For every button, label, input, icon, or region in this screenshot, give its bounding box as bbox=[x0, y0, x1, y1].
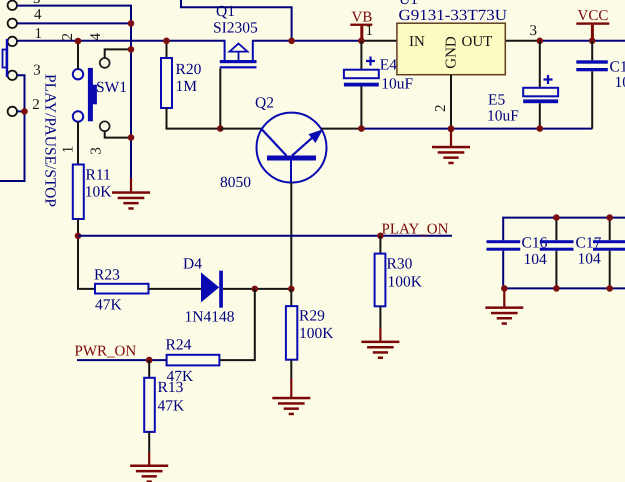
ground at R13 bbox=[130, 432, 168, 482]
wire SW1 top-right pin to bus bbox=[105, 49, 131, 58]
wire main rail right bbox=[505, 40, 540, 42]
junction U1 gnd rail bbox=[448, 125, 455, 132]
diode D4 1N4148 bbox=[201, 271, 223, 308]
svg-text:C18: C18 bbox=[610, 59, 625, 76]
junction R11 bottom bbox=[75, 233, 82, 240]
wire U1 GND pin down bbox=[450, 75, 452, 129]
wire pin2 stub bbox=[17, 110, 25, 112]
svg-text:104: 104 bbox=[524, 251, 548, 268]
svg-text:R13: R13 bbox=[158, 379, 184, 396]
wire Q2 base row bbox=[220, 128, 262, 130]
svg-text:VCC: VCC bbox=[578, 8, 609, 24]
wire C16 ladder bottom rail bbox=[503, 287, 625, 289]
capacitor C17 bbox=[540, 218, 574, 289]
junction C17 top bbox=[553, 214, 560, 221]
junction pin4 bus bbox=[128, 20, 135, 27]
jack bracket fragment at left edge bbox=[3, 39, 8, 77]
wire R11 bottom to PLAY_ON and R23 bbox=[78, 219, 95, 289]
svg-text:47K: 47K bbox=[158, 398, 186, 415]
wire SW1 bottom-right pin to bus bbox=[105, 131, 131, 137]
svg-text:PLAY/PAUSE/STOP: PLAY/PAUSE/STOP bbox=[41, 74, 58, 207]
svg-text:100K: 100K bbox=[299, 325, 334, 342]
wire Q2 emitter to ground rail bbox=[321, 128, 361, 130]
junction R13 top bbox=[146, 357, 153, 364]
regulator U1 G9131-33T73U bbox=[397, 23, 505, 74]
connector P pin 5 (top, clipped) bbox=[8, 0, 41, 10]
wire Q1 drain bypass from top edge bbox=[181, 0, 292, 41]
svg-text:1: 1 bbox=[366, 23, 374, 39]
svg-text:10uF: 10uF bbox=[381, 75, 413, 92]
svg-text:4: 4 bbox=[34, 7, 42, 23]
svg-text:Q2: Q2 bbox=[255, 95, 274, 112]
ground at regulator bbox=[432, 129, 470, 164]
connector P pin 3 bbox=[8, 63, 41, 81]
transistor Q2 (NPN 8050) bbox=[257, 113, 327, 183]
svg-text:SW1: SW1 bbox=[96, 79, 127, 96]
junction SW1 bottom-right pin bbox=[128, 134, 135, 141]
svg-text:PWR_ON: PWR_ON bbox=[75, 344, 137, 360]
svg-text:1M: 1M bbox=[176, 78, 198, 95]
power port VB bbox=[350, 10, 372, 41]
connector P pin 2 bbox=[8, 97, 40, 116]
svg-text:E4: E4 bbox=[380, 57, 397, 74]
svg-text:3: 3 bbox=[88, 147, 104, 155]
svg-text:2: 2 bbox=[433, 105, 449, 113]
wire pin5 to vertical bus bbox=[17, 6, 131, 178]
wire net PWR_ON bbox=[77, 359, 167, 361]
svg-text:R24: R24 bbox=[166, 337, 192, 354]
junction C19 top bbox=[606, 214, 613, 221]
wire main rail left bbox=[17, 40, 226, 42]
wire pin4 bbox=[17, 22, 131, 24]
junction C19 bottom bbox=[606, 285, 613, 292]
wire pin3 down-left loop bbox=[0, 75, 25, 181]
connector P pin 4 bbox=[8, 7, 42, 28]
junction gate node bbox=[217, 125, 224, 132]
junction drain rail bbox=[288, 38, 295, 45]
resistor R20 bbox=[161, 41, 172, 108]
svg-text:104: 104 bbox=[578, 251, 602, 268]
wire net PLAY_ON bbox=[78, 235, 452, 237]
svg-text:104: 104 bbox=[615, 74, 625, 91]
transistor Q1 (P-MOSFET SI2305) bbox=[220, 41, 257, 69]
svg-text:1: 1 bbox=[35, 26, 43, 42]
junction VB rail bbox=[358, 38, 365, 45]
wire SW1 bottom contact to R11 bbox=[77, 122, 79, 165]
resistor R23 bbox=[95, 284, 149, 294]
svg-text:SI2305: SI2305 bbox=[213, 20, 258, 37]
svg-text:G9131-33T73U: G9131-33T73U bbox=[399, 7, 508, 24]
ground at R30 bbox=[361, 306, 399, 359]
resistor R11 bbox=[73, 165, 84, 220]
wire Q2 base down bbox=[290, 183, 292, 289]
capacitor C19 (clipped at right) bbox=[593, 218, 625, 289]
junction pin2 bus bbox=[21, 108, 28, 115]
svg-text:IN: IN bbox=[409, 34, 425, 50]
svg-text:2: 2 bbox=[60, 33, 76, 41]
junction D4-R24 node bbox=[252, 286, 259, 293]
wire main rail mid bbox=[252, 40, 361, 42]
svg-text:47K: 47K bbox=[95, 297, 123, 314]
ground at C16 ladder bbox=[485, 288, 523, 324]
junction VCC rail bbox=[589, 38, 596, 45]
power port VCC bbox=[576, 8, 609, 41]
svg-text:10uF: 10uF bbox=[487, 108, 519, 125]
svg-text:3: 3 bbox=[33, 63, 41, 79]
resistor R29 bbox=[286, 289, 297, 360]
svg-text:1: 1 bbox=[60, 146, 76, 154]
svg-text:R11: R11 bbox=[86, 167, 111, 184]
switch SW1 bbox=[73, 58, 110, 131]
svg-text:R23: R23 bbox=[94, 267, 120, 284]
wire R24 right to D4 node bbox=[219, 289, 254, 360]
svg-text:Q1: Q1 bbox=[216, 3, 235, 20]
junction SW1 top-right pin bbox=[128, 46, 135, 53]
svg-text:1N4148: 1N4148 bbox=[185, 309, 235, 326]
capacitor C18 bbox=[576, 41, 608, 129]
svg-text:3: 3 bbox=[530, 23, 538, 39]
junction pin3 rail bbox=[537, 38, 544, 45]
wire R23 to D4 anode bbox=[149, 288, 202, 290]
svg-text:R30: R30 bbox=[387, 256, 413, 273]
svg-text:E5: E5 bbox=[488, 92, 505, 109]
wire C16 ladder top rail bbox=[503, 217, 625, 219]
svg-text:4: 4 bbox=[88, 33, 104, 41]
connector P pin 1 bbox=[8, 26, 42, 46]
wire D4 cathode row bbox=[223, 288, 291, 290]
capacitor C16 bbox=[487, 217, 521, 289]
svg-text:2: 2 bbox=[32, 97, 40, 113]
svg-text:PLAY_ON: PLAY_ON bbox=[382, 222, 449, 238]
svg-text:R20: R20 bbox=[176, 61, 202, 78]
junction E4 ground rail bbox=[358, 125, 365, 132]
junction SW1 top contact bbox=[75, 38, 82, 45]
svg-text:GND: GND bbox=[444, 36, 460, 69]
capacitor E4 bbox=[344, 41, 379, 129]
svg-text:D4: D4 bbox=[183, 256, 202, 273]
wire ground rail bbox=[361, 128, 592, 130]
junction R30 top bbox=[377, 233, 384, 240]
resistor R13 bbox=[144, 360, 155, 432]
svg-text:10K: 10K bbox=[85, 184, 113, 201]
svg-text:OUT: OUT bbox=[462, 34, 493, 50]
wire R20 bottom to gate junction bbox=[167, 108, 221, 129]
svg-text:R29: R29 bbox=[299, 308, 325, 325]
capacitor E5 bbox=[523, 41, 558, 129]
wire SW1 top contact to rail bbox=[77, 41, 79, 69]
resistor R24 bbox=[167, 355, 220, 366]
wire Q1 gate down bbox=[219, 68, 221, 128]
junction C17 bottom bbox=[553, 285, 560, 292]
junction Q2 base / R29 node bbox=[288, 286, 295, 293]
ground at SW1 bus bbox=[112, 178, 150, 210]
junction C16 bottom bbox=[501, 285, 508, 292]
svg-text:100K: 100K bbox=[388, 274, 423, 291]
resistor R30 bbox=[375, 236, 386, 307]
junction E5 ground rail bbox=[537, 125, 544, 132]
junction R20 top bbox=[163, 38, 170, 45]
svg-text:8050: 8050 bbox=[220, 174, 251, 191]
ground at R29 bbox=[272, 360, 310, 415]
